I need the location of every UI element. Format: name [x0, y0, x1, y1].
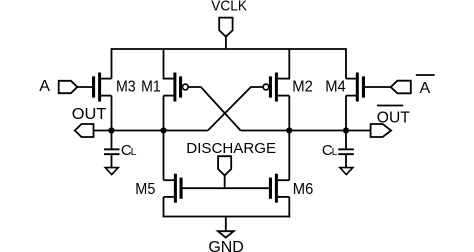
wire OUT-bar node rail [241, 130, 371, 132]
svg-text:A: A [39, 78, 50, 95]
pin OUT-bar [371, 124, 392, 137]
junction OUT-bar / M2 drain [286, 127, 292, 133]
svg-text:A: A [420, 80, 431, 97]
junction OUT / M1 drain [160, 127, 166, 133]
svg-text:GND: GND [208, 239, 243, 252]
node A-bar overline [416, 74, 435, 76]
ground GND [218, 231, 234, 237]
svg-text:DISCHARGE: DISCHARGE [186, 140, 276, 157]
pin OUT [75, 124, 94, 137]
pin VCLK [219, 18, 232, 37]
junction OUT-bar / M4 drain [343, 127, 349, 133]
wire GND stem [225, 217, 227, 232]
transistor M2 [263, 73, 289, 132]
transistor M6 [269, 131, 289, 218]
pin DISCHARGE [218, 156, 231, 175]
node OUT-bar overline [377, 105, 403, 107]
wire GND bottom rail [163, 216, 290, 218]
svg-text:VCLK: VCLK [211, 0, 247, 15]
transistor M3 [77, 73, 112, 132]
wire M5-M6 gate [183, 187, 269, 189]
svg-text:OUT: OUT [72, 106, 107, 123]
svg-text:L: L [131, 146, 137, 158]
ground right [340, 168, 353, 175]
svg-text:M2: M2 [292, 79, 313, 96]
wire M2 gate to cross-couple [208, 87, 263, 131]
transistor M1 [164, 73, 189, 132]
wire DISCHARGE stem [224, 176, 226, 190]
ground left [105, 168, 118, 175]
svg-text:M1: M1 [141, 79, 161, 96]
pin A-bar [391, 81, 411, 94]
transistor M5 [164, 131, 183, 218]
transistor M4 [346, 73, 391, 132]
wire M1 source riser [163, 49, 165, 80]
wire OUT node rail [94, 130, 208, 132]
wire VCLK stem [225, 37, 227, 50]
wire M1 gate to cross-couple [188, 87, 240, 131]
svg-text:M4: M4 [325, 79, 346, 96]
wire VCLK top rail [112, 49, 347, 79]
capacitor CL right [338, 131, 354, 168]
svg-text:M3: M3 [116, 79, 136, 96]
svg-text:M5: M5 [135, 181, 155, 198]
junction OUT / M3 drain [108, 127, 114, 133]
capacitor CL left [104, 131, 120, 168]
svg-text:M6: M6 [293, 181, 314, 198]
wire M2 source riser [288, 49, 290, 80]
pin A [59, 81, 78, 93]
svg-text:L: L [332, 146, 338, 158]
